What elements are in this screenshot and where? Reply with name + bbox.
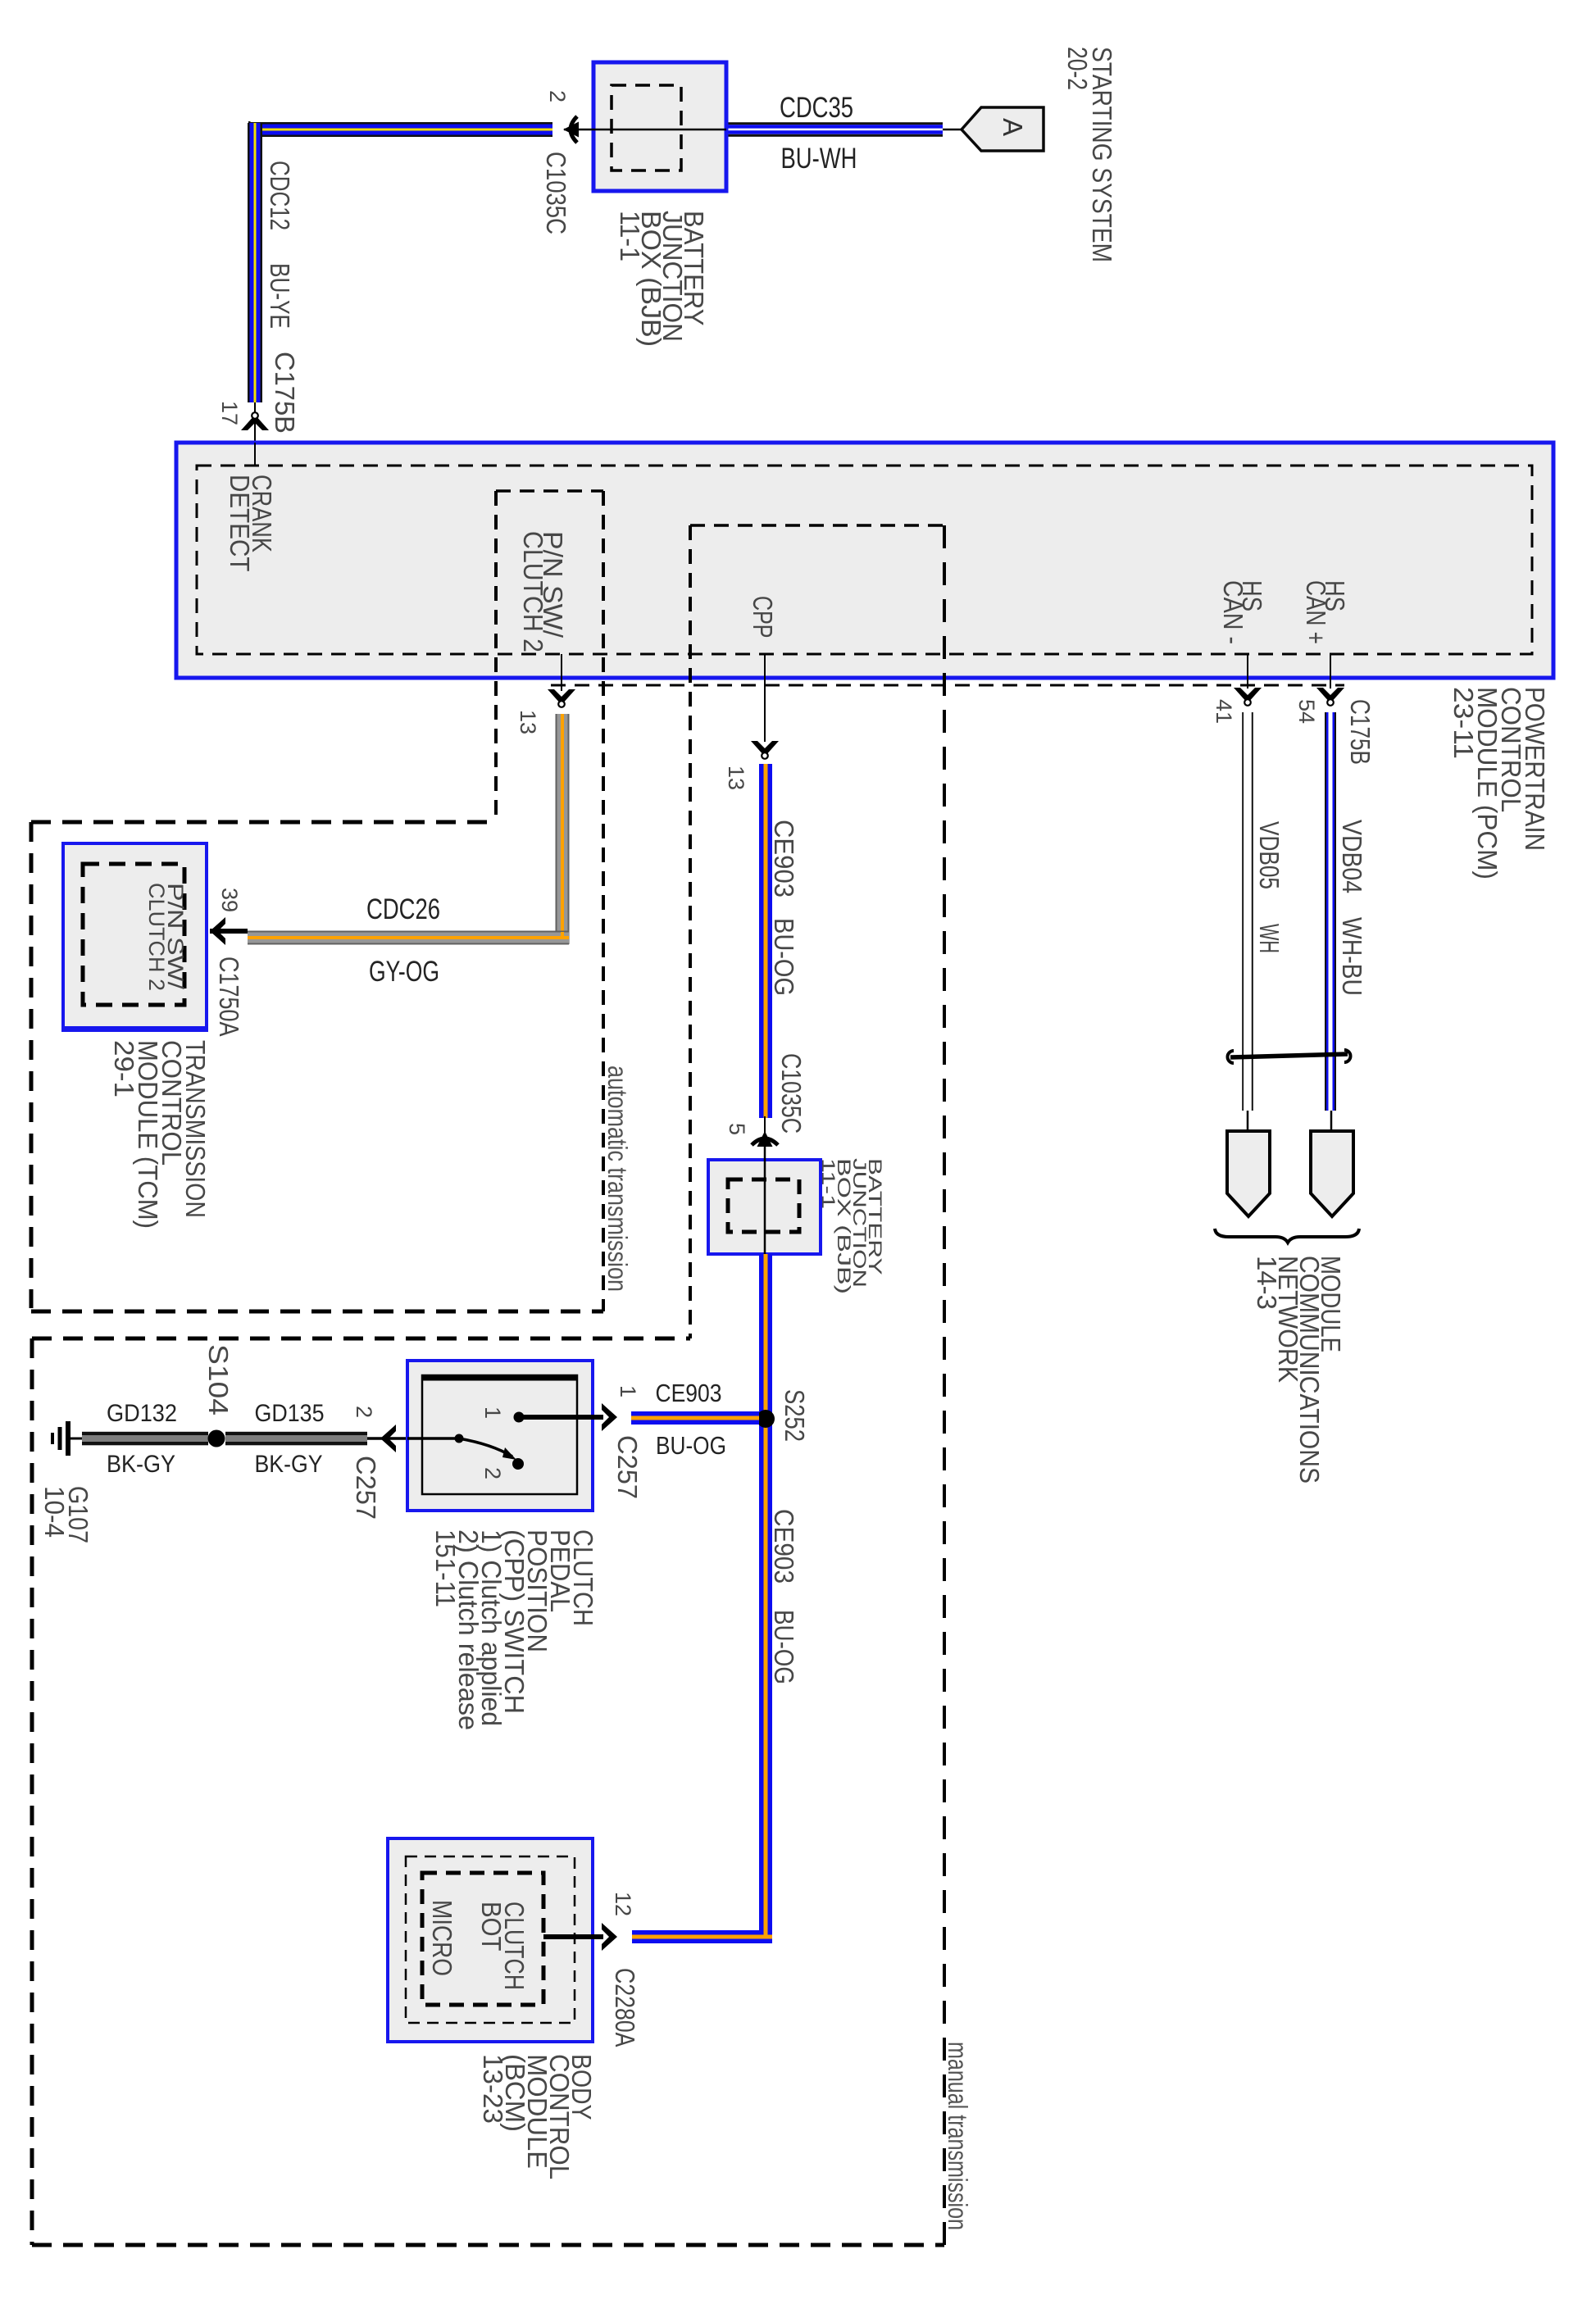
svg-text:13: 13	[516, 710, 540, 741]
svg-text:2: 2	[545, 90, 570, 109]
svg-text:2: 2	[352, 1406, 376, 1425]
wire pin54 lead	[1330, 654, 1331, 688]
battery junction box BJB2	[708, 1160, 821, 1254]
svg-text:BU-OG: BU-OG	[769, 918, 799, 1003]
wire through BJB1	[564, 129, 726, 131]
twisted pair symbol	[1228, 1051, 1235, 1063]
battery junction box BJB1	[593, 62, 726, 191]
BCM middle dashed	[406, 1856, 575, 2023]
svg-text:MICRO: MICRO	[427, 1900, 457, 1984]
brace	[1215, 1229, 1359, 1243]
svg-text:CPP: CPP	[748, 596, 778, 645]
connector pin13 P/N arrow	[548, 689, 575, 707]
manual transmission dashed box	[32, 1337, 690, 1341]
svg-text:S104: S104	[203, 1344, 234, 1423]
lead to right network arrow	[1330, 1111, 1333, 1133]
wire CDC26 GY-OG vertical	[556, 714, 557, 944]
connector pin39 stem+arrow	[210, 929, 248, 934]
svg-text:S252: S252	[780, 1389, 810, 1449]
switch lever	[459, 1438, 512, 1456]
wire pin13 P/N lead	[561, 654, 562, 691]
wire CDC12 BU-YE horizontal	[248, 122, 552, 125]
wire CDC35 lead	[943, 129, 962, 131]
lead to left network arrow	[1247, 1111, 1249, 1133]
automatic transmission dashed box	[31, 820, 496, 825]
switch pin2 line inside	[407, 1437, 459, 1440]
network arrow left	[1227, 1131, 1270, 1216]
svg-text:C2280A: C2280A	[610, 1968, 640, 2053]
svg-text:39: 39	[217, 888, 242, 919]
svg-text:automatic transmission: automatic transmission	[602, 1066, 633, 1299]
wire CE903 BU-OG lower	[759, 1254, 764, 1943]
connector pin17 arrow	[241, 412, 269, 430]
switch pin1 stem	[519, 1415, 603, 1420]
transmission control module TCM box	[63, 843, 207, 1030]
clutch pedal position switch box	[407, 1361, 593, 1511]
dashed sub-box P/N SW CLUTCH 2 (PCM)	[496, 489, 603, 493]
svg-text:BU-WH: BU-WH	[781, 143, 857, 175]
svg-text:CDC26: CDC26	[366, 893, 440, 925]
svg-text:5: 5	[725, 1123, 749, 1142]
svg-text:13: 13	[724, 766, 748, 797]
svg-text:C1035C: C1035C	[541, 152, 571, 242]
BJB2 inner bold dashed	[728, 1179, 799, 1232]
wire VDB05 WH	[1242, 712, 1244, 1111]
connector C1035C pin2 symbol	[563, 116, 579, 143]
ground G107 symbol	[66, 1421, 70, 1456]
connector C257 pin1 arrow	[602, 1403, 617, 1431]
svg-text:WH-BU: WH-BU	[1337, 917, 1367, 1003]
svg-text:GY-OG: GY-OG	[369, 956, 439, 988]
connector pin13 CPP arrow	[751, 741, 779, 759]
wire CE903 BU-OG from switch	[631, 1411, 759, 1416]
svg-text:1: 1	[616, 1385, 640, 1404]
svg-text:C175B: C175B	[1345, 699, 1375, 772]
network arrow right	[1311, 1131, 1353, 1216]
svg-text:A: A	[998, 118, 1028, 142]
wire VDB04 WH-BU	[1325, 712, 1326, 1111]
connector C257 pin2 arrow	[380, 1425, 396, 1452]
switch contact 2 dot	[512, 1458, 524, 1470]
svg-text:C1750A: C1750A	[214, 957, 244, 1043]
svg-text:BU-YE: BU-YE	[265, 263, 295, 336]
switch inner rect	[422, 1375, 577, 1494]
svg-text:C1035C: C1035C	[776, 1053, 807, 1141]
svg-text:P/N SW/ CLUTCH 2: P/N SW/ CLUTCH 2	[144, 883, 188, 997]
PCM inner dashed	[197, 466, 1532, 654]
svg-text:BU-OG: BU-OG	[769, 1610, 799, 1692]
svg-text:41: 41	[1212, 699, 1236, 730]
wire CDC26 GY-OG horizontal	[248, 931, 569, 933]
TCM inner bold dashed	[83, 864, 184, 1005]
wire CDC35 BU-WH	[726, 122, 943, 125]
svg-text:GD132: GD132	[107, 1400, 177, 1427]
switch pivot dot	[455, 1434, 464, 1443]
wire GD132 BK-GY	[82, 1432, 208, 1436]
dashed sub-box CPP (PCM)	[690, 524, 944, 527]
connector pin54 arrow	[1316, 688, 1344, 706]
BCM pin12 stem	[543, 1934, 603, 1939]
BJB1 inner dashed	[612, 85, 681, 170]
wire CE903 BU-OG upper	[759, 764, 764, 1118]
dashed connector line below PCM	[551, 684, 1344, 687]
wire through BJB2	[764, 1145, 766, 1254]
svg-text:P/N SW/ CLUTCH 2: P/N SW/ CLUTCH 2	[518, 531, 568, 660]
wire pin41 lead	[1247, 654, 1248, 688]
svg-text:manual transmission: manual transmission	[943, 2042, 973, 2238]
svg-text:WH: WH	[1254, 924, 1285, 961]
connector pin41 arrow	[1234, 688, 1262, 706]
switch contact 1 dot	[514, 1412, 525, 1423]
wire pin17 lead inside PCM	[254, 443, 256, 466]
node A starting-system flag	[962, 107, 1044, 151]
connector C2280A pin12 arrow	[602, 1923, 617, 1951]
wire pin13 CPP lead	[764, 654, 766, 742]
svg-text:1: 1	[480, 1406, 505, 1425]
svg-text:BU-OG: BU-OG	[656, 1431, 726, 1460]
junction S252	[757, 1410, 775, 1428]
wire pin17 lead	[254, 402, 256, 466]
svg-text:VDB04: VDB04	[1337, 820, 1367, 901]
powertrain control module PCM box	[176, 443, 1553, 678]
svg-text:2: 2	[480, 1467, 505, 1486]
svg-text:BK-GY: BK-GY	[255, 1451, 323, 1478]
wire GD135 BK-GY	[225, 1432, 367, 1436]
svg-text:CE903: CE903	[769, 1509, 799, 1591]
svg-text:GD135: GD135	[255, 1400, 325, 1427]
svg-text:54: 54	[1294, 699, 1319, 730]
wire pin2 C257 lead	[367, 1437, 459, 1440]
wire CE903 BU-OG to BCM	[632, 1930, 772, 1935]
junction S104	[208, 1430, 225, 1447]
svg-text:17: 17	[217, 401, 242, 432]
svg-text:CDC12: CDC12	[265, 161, 295, 238]
svg-text:G107 10-4: G107 10-4	[39, 1486, 93, 1551]
BCM inner bold dashed	[422, 1873, 543, 2005]
svg-text:C257: C257	[351, 1456, 381, 1527]
wire CDC12 BU-YE vertical	[248, 123, 250, 402]
svg-text:CE903: CE903	[656, 1379, 722, 1407]
wire pin5 lead	[764, 1116, 766, 1134]
svg-text:CDC35: CDC35	[780, 92, 853, 124]
body control module BCM box	[388, 1838, 593, 2042]
svg-text:12: 12	[611, 1892, 635, 1923]
svg-text:CE903: CE903	[769, 820, 799, 905]
svg-text:C175B: C175B	[270, 352, 300, 441]
svg-text:BK-GY: BK-GY	[107, 1451, 175, 1478]
svg-text:C257: C257	[612, 1435, 643, 1506]
svg-text:VDB05: VDB05	[1254, 821, 1285, 897]
connector C1035C pin5 symbol	[752, 1131, 778, 1147]
